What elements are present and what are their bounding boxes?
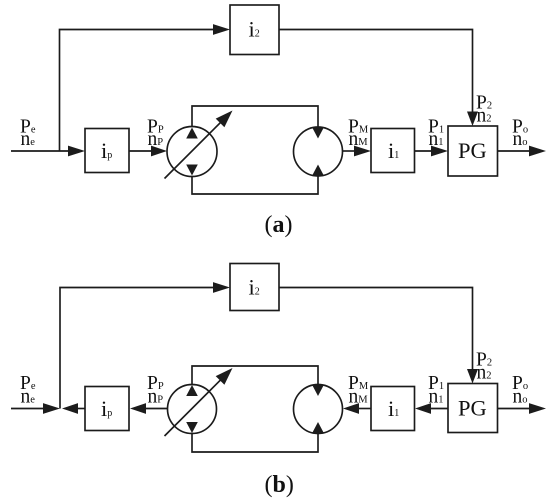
- block i1 (a): [371, 129, 415, 173]
- node P2/n2 (b): [476, 350, 492, 384]
- svg-text:(b): (b): [265, 472, 294, 498]
- svg-text:PG: PG: [458, 138, 487, 163]
- arrowhead: (a) input into iP: [68, 146, 85, 157]
- block iP (b): [85, 387, 129, 431]
- motor bottom port triangle (a): [312, 165, 324, 176]
- arrowhead: (a) feedback down into PG: [467, 112, 478, 127]
- pump top port triangle (b): [186, 385, 198, 396]
- pump top port triangle (a): [186, 128, 198, 139]
- block i1 (b): [371, 387, 415, 431]
- wire: (a) i1 to PG: [415, 150, 434, 152]
- node Po/no (b): [512, 373, 528, 408]
- svg-text:PG: PG: [458, 396, 487, 421]
- block PG (b): [448, 384, 498, 433]
- node Pe/ne (a): [20, 117, 36, 151]
- wire: (a) hydraulic loop bottom: [192, 176, 318, 194]
- block iP (a): [85, 129, 129, 173]
- svg-text:(a): (a): [265, 212, 293, 238]
- node P2/n2 (a): [476, 93, 492, 127]
- caption (b): [265, 472, 294, 498]
- node PP/nP (a): [147, 117, 164, 151]
- motor bottom port triangle (b): [312, 422, 324, 433]
- wire: (a) motor to i1: [343, 150, 357, 152]
- arrowhead: (a) into pump: [151, 146, 167, 157]
- wire: (b) hydraulic loop top: [192, 366, 318, 385]
- pump variable-displacement diagonal arrow (a): [165, 111, 233, 179]
- wire: (b) PG output: [498, 408, 532, 410]
- motor M: hydraulic motor circle (a): [294, 127, 343, 176]
- wire: (b) i2 output to PG feedback: [279, 288, 473, 371]
- arrowhead: (a) output: [529, 146, 546, 157]
- node P1/n1 (a): [428, 117, 444, 151]
- wire: (a) i2 output to PG feedback: [279, 30, 473, 114]
- wire: (a) branch up to i2: [60, 30, 216, 152]
- arrowhead: (b) input into junction: [43, 403, 60, 414]
- arrowhead: (b) into i1: [415, 403, 431, 414]
- block PG (a): [448, 126, 498, 176]
- wire: (b) pump to iP: [145, 408, 167, 410]
- arrowhead: (b) iP output into junction: [62, 403, 78, 414]
- wire: (a) iP to pump: [129, 150, 153, 152]
- arrowhead: (b) into motor: [343, 403, 359, 414]
- wire: (b) i1 to motor: [358, 408, 371, 410]
- arrowhead: (b) into iP: [130, 403, 146, 414]
- wire: (a) hydraulic loop top: [192, 106, 318, 127]
- pump bottom port triangle (b): [186, 422, 198, 433]
- block i2 (a): [230, 5, 279, 55]
- wire: (b) hydraulic loop bottom: [192, 434, 318, 453]
- block i2 (b): [230, 264, 279, 311]
- node P1/n1 (b): [428, 373, 444, 408]
- wire: (b) input line from left: [11, 408, 45, 410]
- caption (a): [265, 212, 293, 238]
- arrowhead: (b) output: [529, 403, 546, 414]
- node PP/nP (b): [147, 373, 164, 408]
- node PM/nM (b): [348, 373, 369, 408]
- pump bottom port triangle (a): [186, 165, 198, 176]
- wire: (b) PG to i1: [430, 408, 448, 410]
- node Pe/ne (b): [20, 373, 36, 408]
- arrowhead: (b) feedback down into PG: [467, 369, 478, 384]
- node Po/no (a): [512, 117, 528, 151]
- arrowhead: (a) into PG: [431, 146, 448, 157]
- arrowhead: (a) into i1: [354, 146, 371, 157]
- pump P: variable displacement pump circle (b): [168, 385, 217, 434]
- pump variable-displacement diagonal arrow (b): [165, 368, 233, 436]
- pump P: variable displacement pump circle (a): [167, 127, 217, 177]
- wire: (a) input line from left: [11, 150, 70, 152]
- arrowhead: (a) into i2: [213, 24, 230, 35]
- motor top port triangle (b): [312, 385, 324, 396]
- node PM/nM (a): [348, 117, 369, 151]
- motor top port triangle (a): [312, 128, 324, 139]
- wire: (b) branch up to i2: [60, 288, 215, 409]
- wire: (b) iP to junction: [76, 408, 85, 410]
- motor M: hydraulic motor circle (b): [294, 385, 343, 434]
- wire: (a) PG output: [498, 150, 532, 152]
- arrowhead: (b) into i2: [213, 282, 230, 293]
